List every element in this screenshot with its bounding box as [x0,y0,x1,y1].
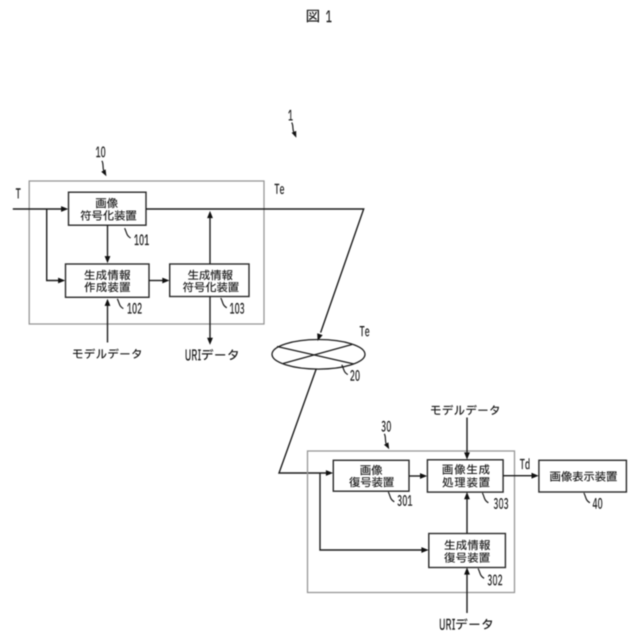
arrowhead URI data out [207,338,213,345]
arrowhead into 303 top [464,452,470,459]
wire 301 to 303 [409,475,421,477]
wire 103 down to URI data [209,297,211,339]
arrowhead branch into 302 [421,547,428,553]
label 101 with leader [125,228,149,245]
box 303 image generation processor 画像生成処理装置 [427,460,503,492]
wire 101 to 102 [107,225,109,257]
label 102 with leader [117,299,141,314]
junction branch wire to 102 [47,209,60,281]
arrowhead into 303 [420,473,427,479]
label URIデータ (encoder output) [186,349,238,361]
label モデルデータ (receiver side) [431,405,499,415]
label 30 with leader arrow [381,421,391,450]
label 20 with leader [342,365,360,381]
arrowhead into 302 bottom [464,567,470,574]
wire model data into 303 [466,418,468,454]
arrowhead into 40 [532,473,539,479]
label 40 with leader [584,493,602,509]
label URIデータ (receiver input) [440,618,492,630]
block 30 outer box [308,451,515,593]
wire 102 to 103 [149,280,164,282]
node T input label [16,188,21,198]
arrowhead branch into 102 [58,278,65,284]
box 101 image encoder 画像符号化装置 [69,192,147,225]
wire 302 to 303 [466,498,468,533]
arrowhead into 102 bottom [105,299,111,306]
box 40 image display 画像表示装置 [539,460,627,492]
box 102 generation-info creator 生成情報作成装置 [66,264,150,297]
node Te label (transmitter output) [275,184,285,194]
arrowhead into 103 [162,278,169,284]
label 10 with leader arrow [96,146,107,176]
wire model data into 102 [107,305,109,343]
arrowhead onto network ellipse [317,333,323,341]
arrowhead up into Te wire [207,211,213,218]
label 1 (system reference numeral) [288,110,296,138]
label 103 with leader [221,298,244,314]
wire 303 to display 40 [503,475,532,477]
block 10 outer box [29,181,264,324]
arrowhead into 101 [61,206,68,212]
label 302 with leader [478,569,502,586]
box 301 image decoder 画像復号装置 [333,460,409,491]
wire network to receiver [279,369,327,473]
label 303 with leader [482,493,508,509]
figure title 図1 [307,10,332,23]
network ellipse 20 [272,340,365,370]
box 103 generation-info encoder 生成情報符号化装置 [170,264,249,297]
box 302 generation-info decoder 生成情報復号装置 [429,534,506,568]
wire URI data into 302 [466,574,468,613]
node Td label [520,458,530,469]
arrowhead into 303 bottom [464,492,470,499]
label モデルデータ (transmitter side) [73,349,141,359]
wire 103 up to Te stream [209,217,211,264]
wire Te stream from 101 to network [146,209,364,333]
wire T input to encoder 101 [13,208,62,210]
arrowhead into 102 top [105,256,111,263]
label 301 with leader [388,492,412,506]
node Te label (receiver side) [360,326,370,336]
arrowhead into 301 [326,470,333,476]
branch wire to 302 [320,473,423,550]
